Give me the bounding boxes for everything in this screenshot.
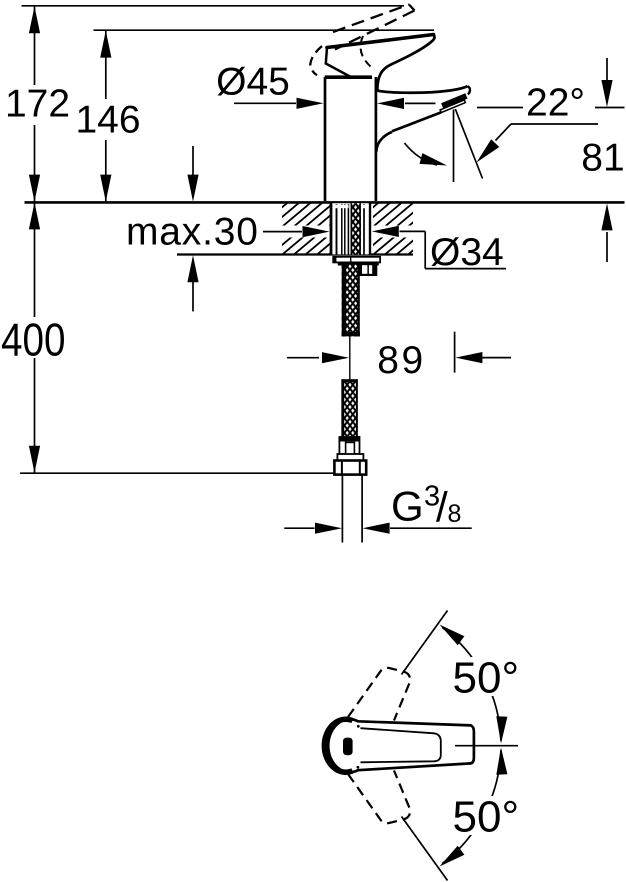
handle top view inner contour — [361, 728, 441, 762]
mounting washer — [332, 257, 380, 263]
label 89 — [377, 339, 425, 382]
lever handle raised (dashed) upper edge — [333, 5, 409, 33]
threaded shank assembly in countertop — [330, 203, 372, 254]
svg-text:146: 146 — [75, 99, 140, 142]
svg-text:max.30: max.30 — [126, 211, 259, 254]
handle tangent dots — [357, 725, 360, 769]
89 dimension extension line — [454, 332, 456, 373]
G3/8 right arrow — [363, 523, 472, 534]
flexible hose upper braided section — [342, 265, 360, 337]
svg-text:G: G — [391, 483, 424, 530]
svg-text:8: 8 — [448, 500, 462, 528]
Ø45 left arrow — [234, 98, 324, 109]
handle top view (solid) — [328, 719, 474, 772]
svg-text:81: 81 — [581, 137, 624, 180]
lever rotation arc (dashed) — [361, 36, 371, 67]
aerator outlet (black) — [441, 93, 467, 108]
countertop hatching left of shank — [202, 194, 449, 264]
81 dimension top arrow — [601, 58, 612, 107]
89 dimension right arrow — [455, 352, 511, 363]
Ø34 right arrow and leader — [372, 226, 506, 269]
spout underside curve into body — [376, 132, 392, 152]
svg-text:89: 89 — [377, 339, 425, 382]
svg-text:/: / — [436, 484, 448, 531]
countertop hatching right of shank — [293, 194, 540, 264]
label 50deg lower — [449, 793, 520, 842]
label 400 — [0, 314, 71, 366]
svg-text:50°: 50° — [453, 654, 520, 703]
countertop bottom line — [177, 253, 413, 255]
faucet body top seam — [325, 75, 372, 79]
label G 3/8 — [391, 481, 461, 531]
extension line (146 level) — [94, 29, 435, 31]
G3/8 left arrow — [284, 523, 342, 534]
aerator housing (outlined) — [440, 100, 465, 113]
max.30 dimension top arrow — [187, 146, 198, 202]
hose end collar — [339, 437, 359, 455]
89 dimension left arrow — [287, 352, 349, 363]
bottom view: dashed handle rotated down 50deg — [348, 771, 410, 824]
label 81 — [581, 137, 624, 180]
22deg reference vertical line — [453, 110, 455, 183]
mounting nut band — [338, 262, 379, 265]
Ø45 right arrow — [377, 98, 436, 109]
bottom view centerline — [455, 745, 518, 747]
22deg leader underline and arrow — [477, 124, 599, 163]
svg-text:400: 400 — [1, 314, 66, 366]
label 50deg upper — [449, 654, 520, 703]
svg-text:22°: 22° — [526, 82, 585, 125]
countertop top line — [25, 201, 625, 204]
handle top view thick back rim — [324, 719, 352, 772]
22deg flow arc with arrowhead — [405, 143, 448, 166]
faucet body right edge — [375, 77, 378, 201]
22deg horizontal reference line to aerator — [477, 107, 625, 109]
dimension 146 vertical line with arrows — [100, 30, 111, 202]
lower 50deg arc with arrows — [440, 748, 508, 867]
label Ø34 — [430, 231, 504, 274]
lever handle raised (dashed) tip — [409, 5, 415, 11]
svg-text:172: 172 — [5, 83, 70, 126]
label 22deg — [523, 82, 595, 125]
81 dimension bottom arrow — [601, 203, 612, 262]
max.30 dimension bottom arrow — [187, 255, 198, 311]
connection tube below nut — [342, 475, 362, 543]
400 reference line at hose end — [20, 472, 334, 474]
lever handle (solid, side view) — [326, 35, 435, 91]
svg-text:50°: 50° — [453, 793, 520, 842]
flexible hose lower braided section — [341, 379, 357, 437]
label 146 — [74, 99, 141, 142]
lever handle raised (dashed) back end — [310, 46, 322, 75]
label max.30 — [126, 211, 259, 254]
spout tip right edge — [468, 86, 471, 94]
faucet body left edge — [324, 77, 327, 201]
svg-text:Ø34: Ø34 — [430, 231, 504, 274]
22deg tilted line — [455, 109, 482, 179]
lower 50deg boundary line — [402, 817, 448, 881]
second hose stub — [360, 262, 378, 276]
hose collar lower flange — [337, 454, 363, 461]
dimension 172 vertical line with arrows — [29, 6, 40, 202]
upper 50deg arc with arrows — [440, 625, 508, 744]
svg-text:Ø45: Ø45 — [216, 61, 290, 104]
label 172 — [4, 83, 70, 126]
spout underside straight edge — [392, 112, 441, 131]
G3/8 hex nut — [334, 461, 366, 475]
handle top view socket (black) — [343, 738, 353, 756]
upper 50deg boundary line — [402, 611, 448, 675]
spout top edge — [376, 86, 467, 93]
hose centerline — [349, 337, 351, 382]
label Ø45 — [216, 61, 290, 104]
Ø34 left arrow — [263, 226, 330, 237]
bottom view: dashed handle rotated up 50deg — [348, 668, 410, 721]
lever handle raised (dashed) lower edge — [335, 11, 415, 50]
400 dimension vertical line with arrows — [29, 202, 40, 473]
top extension line (172 level) — [22, 5, 405, 7]
